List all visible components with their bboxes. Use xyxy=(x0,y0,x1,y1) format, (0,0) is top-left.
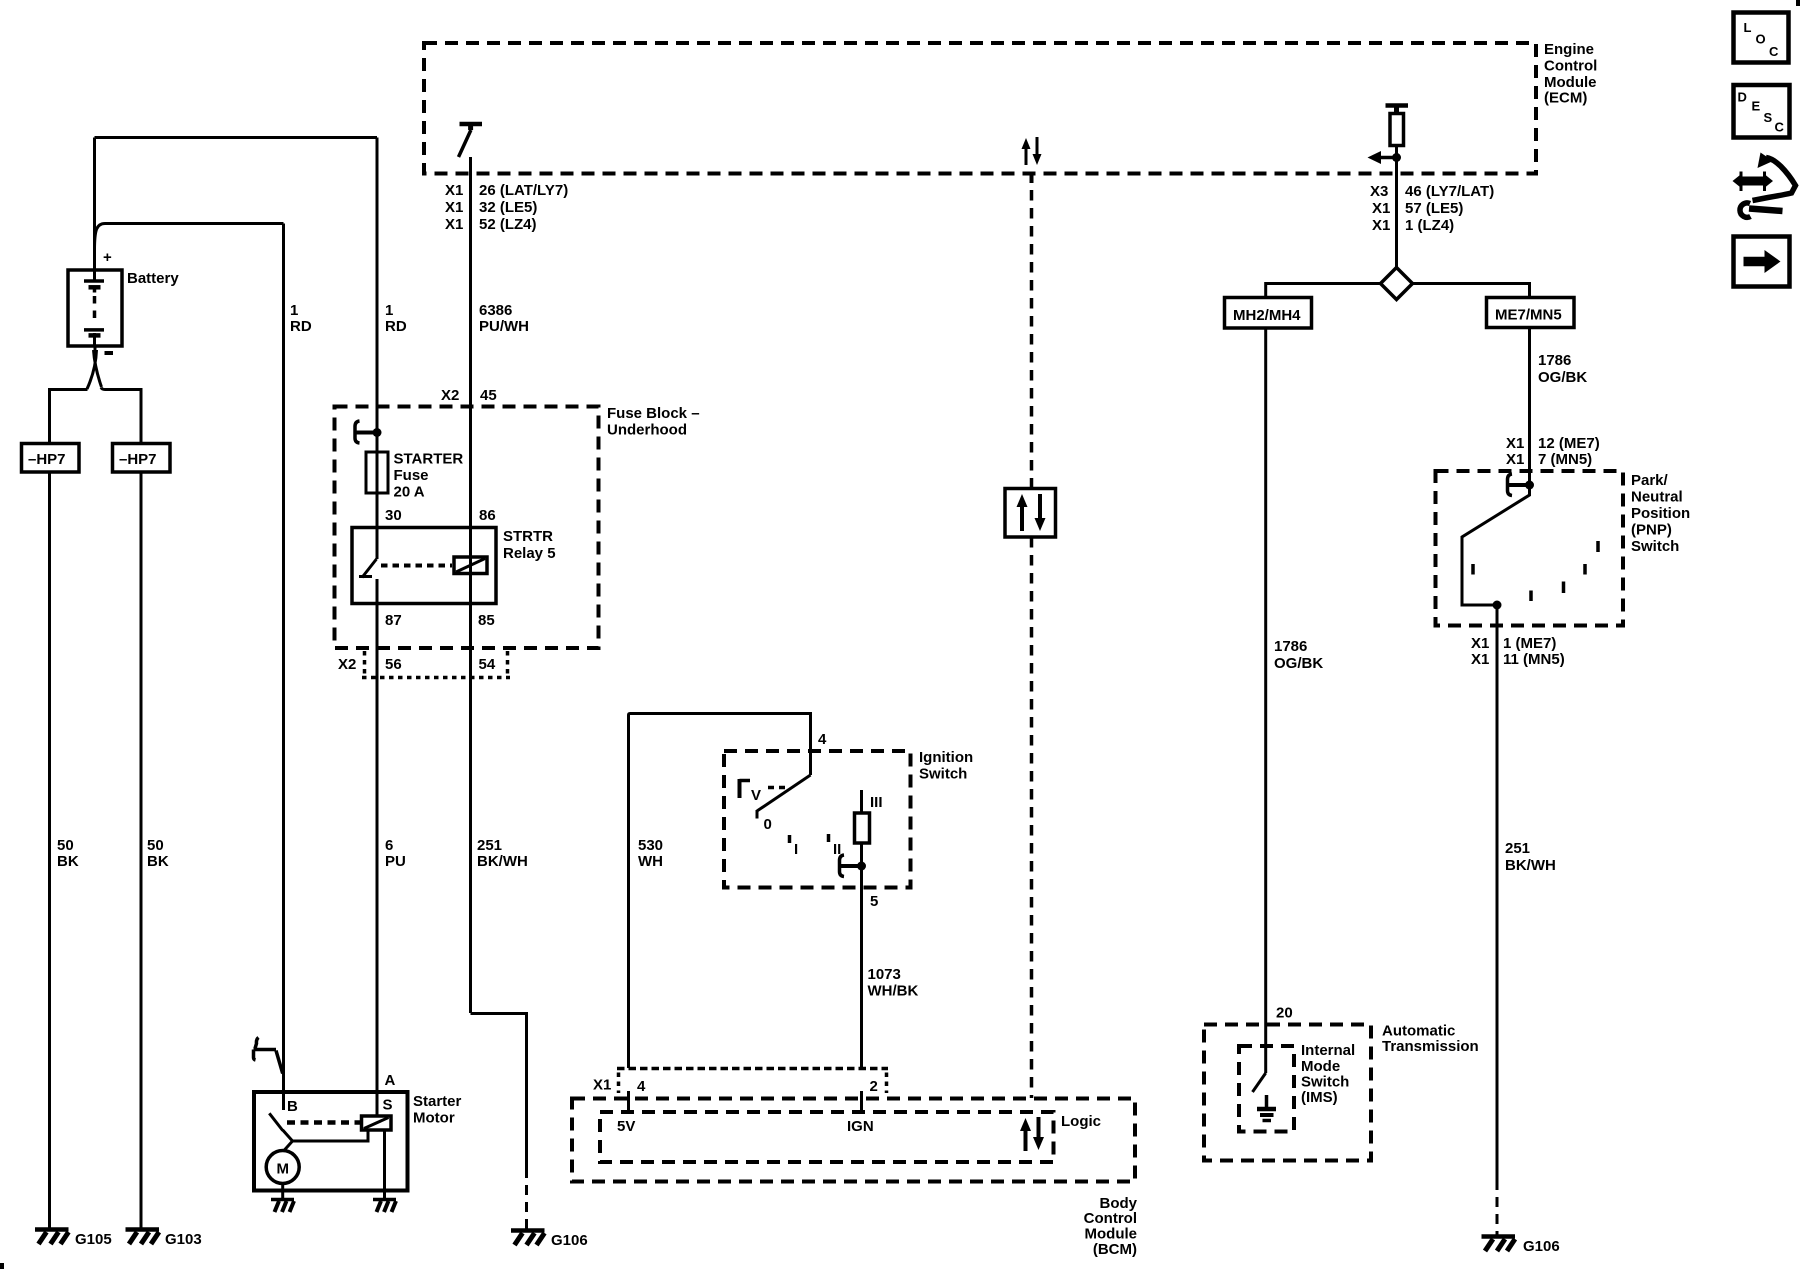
svg-text:57 (LE5): 57 (LE5) xyxy=(1405,200,1463,217)
svg-text:RD: RD xyxy=(290,318,312,335)
svg-text:Starter: Starter xyxy=(413,1093,462,1110)
ECM internal resistor (right, driver) xyxy=(1386,106,1409,164)
starter blade to motor link xyxy=(283,1130,368,1151)
svg-text:Relay 5: Relay 5 xyxy=(503,545,556,562)
svg-text:1: 1 xyxy=(385,302,393,319)
svg-text:X2: X2 xyxy=(338,656,356,673)
motor M circle xyxy=(266,1151,299,1184)
icon next arrow button xyxy=(1734,237,1790,287)
svg-text:X1: X1 xyxy=(1471,635,1489,652)
BCM logic inner dashed box xyxy=(600,1112,1054,1162)
svg-text:Control: Control xyxy=(1544,58,1597,75)
PNP switch dashed box xyxy=(1436,471,1624,626)
starter motor ground (left) xyxy=(271,1200,294,1213)
svg-text:RD: RD xyxy=(385,318,407,335)
svg-text:BK: BK xyxy=(147,853,169,870)
svg-text:20 A: 20 A xyxy=(394,484,425,501)
starter switch blade xyxy=(269,1113,282,1130)
wire diamond to ME7/MN5 xyxy=(1413,284,1530,298)
IMS ground symbol xyxy=(1257,1095,1276,1121)
svg-text:5V: 5V xyxy=(617,1118,635,1135)
wire from ECM down to diamond xyxy=(1395,160,1398,270)
svg-text:1073: 1073 xyxy=(868,966,901,983)
IMS switch blade xyxy=(1253,1073,1266,1092)
svg-text:D: D xyxy=(1738,90,1747,105)
svg-text:30: 30 xyxy=(385,507,402,524)
svg-text:Fuse: Fuse xyxy=(394,467,429,484)
svg-text:STARTER: STARTER xyxy=(394,451,464,468)
wire 50 BK right xyxy=(140,472,143,1228)
wire 6386 from ECM down xyxy=(469,157,472,603)
svg-text:X1: X1 xyxy=(1372,217,1390,234)
wire motor to ground xyxy=(281,1184,284,1199)
internal mode switch dashed box xyxy=(1239,1046,1294,1132)
svg-text:A: A xyxy=(385,1072,396,1089)
svg-text:Engine: Engine xyxy=(1544,41,1594,58)
svg-text:S: S xyxy=(1764,110,1773,125)
svg-text:6386: 6386 xyxy=(479,302,512,319)
svg-text:X1: X1 xyxy=(1506,435,1524,452)
connector X2 row (56 54) dotted box xyxy=(363,651,367,676)
serial data symbol box xyxy=(1005,489,1056,538)
BCM outer dashed box xyxy=(572,1099,1135,1182)
wire battery+ vertical xyxy=(93,138,96,271)
wire IGN stub into BCM xyxy=(860,1091,863,1112)
svg-text:1 (LZ4): 1 (LZ4) xyxy=(1405,217,1454,234)
svg-text:–HP7: –HP7 xyxy=(119,451,157,468)
wire 530 WH from BCM up and over to ignition pin 4 xyxy=(629,714,811,1069)
wire relay 85 down xyxy=(469,603,472,1013)
starter motor box xyxy=(254,1092,408,1191)
svg-text:45: 45 xyxy=(480,387,497,404)
ignition position I mark xyxy=(790,835,799,858)
svg-text:(BCM): (BCM) xyxy=(1093,1241,1137,1258)
svg-text:X1: X1 xyxy=(1471,651,1489,668)
svg-text:V: V xyxy=(751,787,761,804)
wire MH2/MH4 down to IMS xyxy=(1264,328,1267,1073)
svg-text:X2: X2 xyxy=(441,387,459,404)
ignition position IV mark xyxy=(740,779,791,804)
svg-text:X1: X1 xyxy=(445,216,463,233)
svg-text:50: 50 xyxy=(147,837,164,854)
wire battery+ to fuse block (top horizontal, 1 RD) xyxy=(95,136,378,139)
svg-text:G106: G106 xyxy=(1523,1238,1560,1255)
connector -HP7 (right) xyxy=(113,444,171,473)
svg-text:50: 50 xyxy=(57,837,74,854)
svg-text:87: 87 xyxy=(385,612,402,629)
svg-text:Mode: Mode xyxy=(1301,1058,1340,1075)
wire to G105 xyxy=(50,390,88,444)
svg-text:+: + xyxy=(103,249,112,266)
svg-text:11 (MN5): 11 (MN5) xyxy=(1503,651,1565,668)
svg-text:C: C xyxy=(1775,120,1785,135)
svg-text:7 (MN5): 7 (MN5) xyxy=(1538,451,1592,468)
inline connector at PNP input xyxy=(1508,474,1535,496)
svg-text:12 (ME7): 12 (ME7) xyxy=(1538,435,1600,452)
connector -HP7 (left) xyxy=(22,444,80,473)
svg-text:54: 54 xyxy=(479,656,496,673)
ECM data line arrows (top) xyxy=(1022,137,1042,165)
ECM dashed box xyxy=(424,43,1536,174)
svg-text:251: 251 xyxy=(477,837,502,854)
wire ME7/MN5 down to PNP xyxy=(1528,328,1531,486)
svg-text:X1: X1 xyxy=(1372,200,1390,217)
wire 1073 WH/BK down to BCM xyxy=(860,866,863,1068)
svg-text:E: E xyxy=(1752,99,1761,114)
icon LOC button xyxy=(1734,13,1789,63)
fuse block underhood dashed box xyxy=(335,407,599,649)
ECM edge tick at serial line xyxy=(1030,175,1034,183)
dashed serial data line (upper) xyxy=(1030,172,1034,488)
svg-text:S: S xyxy=(383,1097,393,1114)
svg-text:20: 20 xyxy=(1276,1005,1293,1022)
page corner mark top-right xyxy=(1796,0,1800,6)
automatic transmission outer dashed box xyxy=(1204,1025,1371,1161)
ground G106 (center) xyxy=(511,1231,545,1246)
wire B down from horizontal to starter xyxy=(282,224,285,1093)
svg-text:O: O xyxy=(1756,32,1766,47)
svg-text:G103: G103 xyxy=(165,1231,202,1248)
svg-text:530: 530 xyxy=(638,837,663,854)
svg-text:STRTR: STRTR xyxy=(503,528,553,545)
PNP switch wire path xyxy=(1462,485,1530,605)
svg-text:Module: Module xyxy=(1544,74,1597,91)
svg-text:1 (ME7): 1 (ME7) xyxy=(1503,635,1556,652)
inline connector on starter B wire xyxy=(254,1038,283,1074)
svg-text:OG/BK: OG/BK xyxy=(1538,369,1587,386)
icon wrench xyxy=(1740,203,1783,217)
fuse STARTER 20A xyxy=(366,452,388,493)
svg-text:III: III xyxy=(870,794,883,811)
svg-text:Park/: Park/ xyxy=(1631,472,1669,489)
starter actuation dashed link xyxy=(287,1120,360,1125)
svg-text:52 (LZ4): 52 (LZ4) xyxy=(479,216,537,233)
relay STRTR Relay 5 box xyxy=(352,528,496,604)
svg-text:85: 85 xyxy=(478,612,495,629)
svg-text:X3: X3 xyxy=(1370,183,1388,200)
battery - label xyxy=(105,351,114,355)
ground G105 xyxy=(35,1230,69,1245)
wire 251 dashed to G106 (right) xyxy=(1496,1180,1499,1236)
svg-text:Logic: Logic xyxy=(1061,1113,1101,1130)
svg-text:WH/BK: WH/BK xyxy=(868,983,919,1000)
svg-text:26 (LAT/LY7): 26 (LAT/LY7) xyxy=(479,182,568,199)
svg-text:X1: X1 xyxy=(593,1077,611,1094)
svg-text:Automatic: Automatic xyxy=(1382,1023,1455,1040)
inline connector at ignition output xyxy=(840,855,867,877)
wire battery- fork xyxy=(87,346,102,389)
wire fuse to relay 30 xyxy=(376,493,379,527)
svg-text:Neutral: Neutral xyxy=(1631,489,1683,506)
ignition switch dashed box xyxy=(724,751,911,888)
relay coil xyxy=(454,557,487,574)
PNP junction dot xyxy=(1493,601,1502,610)
svg-text:PU/WH: PU/WH xyxy=(479,318,529,335)
svg-text:M: M xyxy=(276,1161,289,1178)
ground G106 (right) xyxy=(1482,1237,1516,1252)
svg-text:BK: BK xyxy=(57,853,79,870)
svg-text:2: 2 xyxy=(870,1078,878,1095)
connector ME7/MN5 box xyxy=(1487,298,1575,328)
svg-text:I: I xyxy=(794,841,798,858)
wire diamond to MH2/MH4 xyxy=(1266,284,1381,299)
battery xyxy=(68,270,122,346)
wire 251 dashed segment to G106 xyxy=(525,1168,528,1230)
ignition position II mark xyxy=(829,834,842,858)
svg-text:ME7/MN5: ME7/MN5 xyxy=(1495,307,1562,324)
svg-text:Battery: Battery xyxy=(127,270,179,287)
svg-text:PU: PU xyxy=(385,853,406,870)
starter solenoid coil xyxy=(362,1116,392,1130)
svg-text:BK/WH: BK/WH xyxy=(1505,857,1556,874)
ECM driver switch (left, on 6386 wire) xyxy=(459,124,483,157)
svg-text:WH: WH xyxy=(638,853,663,870)
wire 1 RD fuse feed vertical xyxy=(376,138,379,453)
relay actuation dashed link xyxy=(381,564,452,568)
svg-text:Switch: Switch xyxy=(1631,538,1679,555)
starter solenoid ground (right) xyxy=(373,1200,396,1213)
svg-text:Underhood: Underhood xyxy=(607,422,687,439)
wire 5V stub into BCM xyxy=(627,1091,630,1112)
svg-text:86: 86 xyxy=(479,507,496,524)
svg-text:Transmission: Transmission xyxy=(1382,1038,1479,1055)
svg-text:0: 0 xyxy=(764,816,772,833)
ignition start contact resistor xyxy=(855,790,870,866)
svg-text:6: 6 xyxy=(385,837,393,854)
svg-text:1786: 1786 xyxy=(1274,638,1307,655)
PNP unused contact dashes xyxy=(1473,541,1598,601)
page corner mark bottom-left xyxy=(0,1263,4,1269)
svg-text:4: 4 xyxy=(818,731,827,748)
svg-text:X1: X1 xyxy=(445,182,463,199)
inline connector on fuse feed wire xyxy=(355,421,382,443)
svg-text:L: L xyxy=(1744,20,1752,35)
ECM output arrow (points left) xyxy=(1368,151,1402,164)
svg-text:(PNP): (PNP) xyxy=(1631,522,1672,539)
svg-text:–HP7: –HP7 xyxy=(28,451,66,468)
dashed serial data line (lower) xyxy=(1030,537,1034,1098)
svg-text:Internal: Internal xyxy=(1301,1042,1355,1059)
connector MH2/MH4 box xyxy=(1225,298,1312,329)
svg-text:4: 4 xyxy=(637,1078,646,1095)
svg-text:Position: Position xyxy=(1631,505,1690,522)
icon DESC button xyxy=(1734,85,1790,138)
svg-text:32 (LE5): 32 (LE5) xyxy=(479,199,537,216)
svg-text:5: 5 xyxy=(870,893,878,910)
BCM serial data arrows xyxy=(1020,1117,1044,1151)
wire battery+ to starter B horizontal xyxy=(95,224,284,251)
svg-text:Motor: Motor xyxy=(413,1110,455,1127)
diamond junction xyxy=(1381,268,1413,300)
wire relay 87 down to starter S xyxy=(376,603,379,1116)
ground G103 xyxy=(126,1230,160,1245)
svg-text:(ECM): (ECM) xyxy=(1544,90,1587,107)
svg-text:(IMS): (IMS) xyxy=(1301,1089,1338,1106)
svg-text:1: 1 xyxy=(290,302,298,319)
icon double arrow with outline xyxy=(1733,153,1796,201)
svg-text:X1: X1 xyxy=(1506,451,1524,468)
connector X1 row at BCM dotted box xyxy=(617,1067,888,1071)
svg-text:X1: X1 xyxy=(445,199,463,216)
svg-text:Fuse Block –: Fuse Block – xyxy=(607,405,700,422)
svg-text:Switch: Switch xyxy=(919,766,967,783)
wire 251 jog to G106 xyxy=(471,1014,527,1169)
starter B wire end inside box xyxy=(282,1092,285,1110)
svg-text:C: C xyxy=(1769,44,1779,59)
svg-text:BK/WH: BK/WH xyxy=(477,853,528,870)
svg-text:MH2/MH4: MH2/MH4 xyxy=(1233,307,1301,324)
svg-text:OG/BK: OG/BK xyxy=(1274,655,1323,672)
svg-text:1786: 1786 xyxy=(1538,352,1571,369)
wire solenoid to ground xyxy=(383,1130,386,1198)
svg-text:Switch: Switch xyxy=(1301,1074,1349,1091)
svg-text:251: 251 xyxy=(1505,840,1530,857)
svg-text:56: 56 xyxy=(385,656,402,673)
svg-text:46 (LY7/LAT): 46 (LY7/LAT) xyxy=(1405,183,1494,200)
svg-text:Ignition: Ignition xyxy=(919,749,973,766)
svg-text:G106: G106 xyxy=(551,1232,588,1249)
svg-text:Module: Module xyxy=(1085,1226,1138,1243)
wire 50 BK left xyxy=(48,472,51,1228)
wire PNP output down xyxy=(1496,605,1499,1180)
svg-text:B: B xyxy=(287,1098,298,1115)
relay switch blade xyxy=(359,527,377,603)
svg-text:G105: G105 xyxy=(75,1231,112,1248)
wire to G103 xyxy=(101,388,141,444)
ignition switch blade from pin 4 xyxy=(757,775,811,819)
svg-text:IGN: IGN xyxy=(847,1118,874,1135)
svg-text:Control: Control xyxy=(1084,1210,1137,1227)
